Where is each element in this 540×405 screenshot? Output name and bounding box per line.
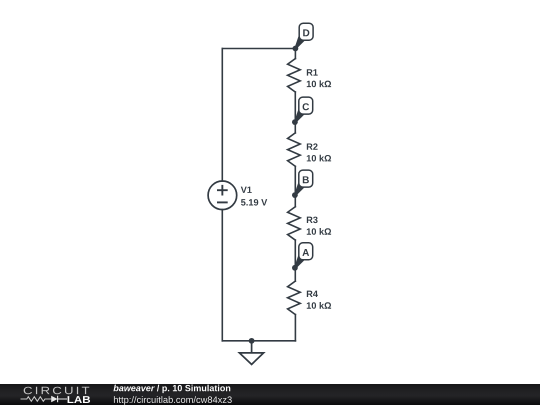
footer title xyxy=(113,385,230,393)
label R3 value xyxy=(307,217,331,235)
label R4 value xyxy=(307,291,331,309)
footer url xyxy=(114,396,232,405)
wire left vertical upper xyxy=(221,49,223,182)
resistor R1 xyxy=(288,59,301,92)
logo resistor squiggle xyxy=(21,397,52,402)
wire R4 to bottom xyxy=(294,315,296,341)
wire R1 to R2 xyxy=(294,92,296,133)
wire R3 to R4 xyxy=(294,240,296,281)
wire R2 to R3 xyxy=(294,166,296,206)
voltage source V1 xyxy=(208,181,237,210)
node A xyxy=(292,243,313,271)
logo LAB xyxy=(68,396,91,403)
wire right lead to R1 xyxy=(294,49,296,59)
resistor R2 xyxy=(288,133,301,166)
wire bottom horizontal xyxy=(222,340,295,342)
label R1 value xyxy=(307,69,331,87)
resistor R3 xyxy=(288,207,301,240)
wire left vertical lower xyxy=(221,210,223,341)
node B xyxy=(292,170,313,198)
node C xyxy=(292,97,313,125)
logo CIRCUIT xyxy=(24,387,90,395)
resistor R4 xyxy=(288,281,301,314)
label R2 value xyxy=(307,143,331,161)
logo diode xyxy=(51,396,57,402)
footer bar xyxy=(0,384,540,405)
node D xyxy=(293,23,314,51)
node junction ground xyxy=(249,338,255,344)
ground xyxy=(239,341,263,365)
wire top horizontal xyxy=(222,48,295,50)
label V1 value xyxy=(241,187,267,206)
